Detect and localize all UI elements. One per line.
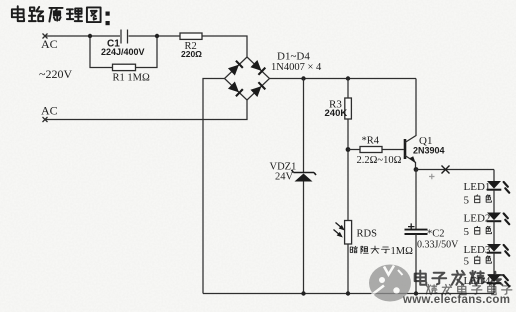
svg-text:2.2Ω~10Ω: 2.2Ω~10Ω (357, 155, 402, 166)
diode D1 (top-left, points NE) (228, 61, 243, 76)
wire: R3 upper leg (347, 79, 349, 99)
AC terminal 2 x-mark (43, 117, 48, 122)
junction dot VDZ1 top (301, 76, 305, 80)
x-mark on LED feed wire (442, 166, 450, 174)
wire: R1 right leg (136, 36, 158, 68)
LED3 (487, 244, 510, 256)
svg-text:*R4: *R4 (362, 136, 380, 147)
wire: VDZ1 branch upper (303, 79, 305, 173)
zener diode VDZ1 (292, 170, 317, 182)
LED4 (487, 275, 510, 287)
wire: C2 branch upper (415, 170, 417, 230)
svg-text:5: 5 (464, 195, 470, 207)
svg-text:1MΩ: 1MΩ (391, 246, 414, 257)
svg-text:0.33J/50V: 0.33J/50V (417, 240, 459, 251)
transistor Q1 emitter with arrow (405, 156, 416, 170)
svg-text:LED1: LED1 (464, 181, 491, 193)
wire: bridge right corner positive rail (270, 78, 417, 80)
title 电路原理图: (12, 6, 101, 22)
resistor R3 (345, 98, 352, 119)
diode D3 (bottom-left, points SE) (228, 81, 243, 96)
wire: R2 to bridge top (202, 36, 247, 57)
photoresistor RDS body (345, 221, 352, 245)
wire: emitter node to LED column (416, 169, 494, 171)
resistor R2 (180, 33, 202, 39)
transistor Q1 collector (405, 79, 416, 143)
wire: C1 to R2 (129, 35, 181, 37)
svg-text:5: 5 (464, 226, 470, 238)
junction dot R3/R4 node (346, 147, 351, 152)
junction dot RDS bottom (346, 291, 350, 295)
svg-text:24V: 24V (275, 172, 294, 183)
svg-text:2N3904: 2N3904 (413, 146, 445, 156)
LED1 (487, 181, 510, 193)
wire: bottom rail (203, 293, 494, 295)
junction dot R3 top (346, 76, 350, 80)
watermark ghost row (426, 284, 511, 294)
capacitor C2 (405, 230, 428, 234)
diode D2 (top-right, points SE) (250, 60, 265, 75)
capacitor C1 (121, 30, 128, 44)
junction dot emitter node (414, 167, 419, 172)
watermark text 电子发烧友 (415, 271, 504, 285)
svg-text:220Ω: 220Ω (181, 49, 202, 59)
svg-text:224J/400V: 224J/400V (101, 47, 145, 57)
svg-text:LED2: LED2 (464, 213, 491, 225)
plus mark C2 (408, 223, 415, 229)
transistor Q1 base bar (404, 139, 407, 159)
wire: LED4 to bottom rail (493, 283, 495, 293)
junction dot VDZ1 bottom (301, 291, 305, 295)
label 暗阻大于1MΩ (350, 246, 389, 254)
junction dot right of C1 (155, 34, 159, 38)
photoresistor RDS arrows (334, 223, 344, 237)
bridge rectifier D1-D4 diamond (225, 57, 270, 100)
svg-text:www.elecfans.com: www.elecfans.com (402, 294, 510, 306)
wire: R4 left lead (348, 149, 360, 151)
svg-text:R1 1MΩ: R1 1MΩ (113, 73, 150, 84)
svg-text:240K: 240K (325, 108, 348, 119)
resistor R4 (360, 147, 382, 153)
wire: R1 parallel branch left leg (90, 36, 113, 68)
svg-text:1N4007 × 4: 1N4007 × 4 (271, 62, 322, 73)
svg-text:5: 5 (464, 256, 470, 268)
wire: bridge left corner negative leg (203, 79, 225, 294)
svg-text:LED3: LED3 (464, 244, 491, 256)
junction dot C2 bottom (414, 291, 418, 295)
faint plus mark near emitter wire (429, 174, 435, 180)
svg-text:AC: AC (41, 104, 58, 118)
svg-text:~220V: ~220V (39, 67, 72, 81)
wire: R3 lower leg (347, 119, 349, 223)
watermark logo circle (369, 265, 411, 302)
svg-text:D1~D4: D1~D4 (277, 51, 310, 63)
wire: R4 to Q1 base (382, 149, 404, 151)
diode D4 (bottom-right, points NE) (250, 82, 265, 97)
resistor R1 (113, 64, 136, 70)
wire: LED2 to LED3 (493, 221, 495, 244)
AC terminal 1 x-mark (43, 34, 48, 39)
wire: VDZ1 branch lower (303, 182, 305, 294)
wire: LED3 to LED4 (493, 253, 495, 275)
LED2 (487, 213, 510, 225)
wire: LED1 to LED2 (493, 190, 495, 213)
wire: C2 branch lower (415, 234, 417, 294)
svg-text:AC: AC (41, 37, 58, 51)
wire: top rail AC1 to C1 (45, 35, 120, 37)
title colon (106, 12, 110, 26)
wire: LED column top (493, 170, 495, 182)
svg-text:*C2: *C2 (427, 229, 445, 240)
wire: bridge bottom to AC2 (45, 100, 247, 120)
svg-text:RDS: RDS (357, 229, 378, 240)
wire: RDS lower leg (347, 244, 349, 294)
junction dot left of C1 (88, 34, 92, 38)
